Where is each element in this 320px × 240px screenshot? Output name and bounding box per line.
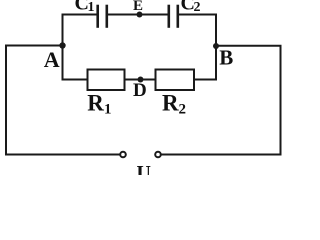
wire: R1 to R2 through node D xyxy=(125,79,156,81)
node E xyxy=(137,12,143,18)
capacitor C2 xyxy=(169,6,178,27)
wire: top branch left segment (corner to C1) xyxy=(63,14,97,16)
wire: C2 to top-right corner, down to node B xyxy=(179,15,216,80)
label C1 xyxy=(75,0,95,15)
wire: R2 to inner right vertical xyxy=(194,79,216,81)
capacitor C1 xyxy=(98,6,107,27)
terminal: left switch contact xyxy=(120,152,126,158)
svg-text:A: A xyxy=(44,47,60,72)
svg-text:E: E xyxy=(133,0,143,14)
label C2 xyxy=(181,0,201,15)
svg-text:R: R xyxy=(87,91,104,116)
svg-text:2: 2 xyxy=(179,102,187,118)
resistor R1 xyxy=(88,70,125,91)
node A xyxy=(59,42,65,48)
resistor R2 xyxy=(156,70,195,91)
wire: inner left vertical through node A xyxy=(62,15,64,80)
svg-text:U: U xyxy=(137,162,151,175)
wire: outer left loop from node A down to left terminal xyxy=(6,46,120,155)
svg-text:B: B xyxy=(219,46,233,70)
label R1 xyxy=(87,91,111,118)
wire: node A to R1 xyxy=(63,79,88,81)
svg-text:1: 1 xyxy=(88,0,95,15)
wire: C1 to C2 through node E xyxy=(108,14,167,16)
svg-text:D: D xyxy=(133,80,147,101)
node B xyxy=(213,43,219,49)
svg-text:2: 2 xyxy=(194,0,201,15)
svg-text:R: R xyxy=(162,91,179,116)
label R2 xyxy=(162,91,186,118)
terminal: right switch contact xyxy=(155,152,161,158)
svg-text:1: 1 xyxy=(104,102,112,118)
wire: outer right loop from node B down to right terminal xyxy=(161,46,280,155)
node D xyxy=(138,77,144,83)
